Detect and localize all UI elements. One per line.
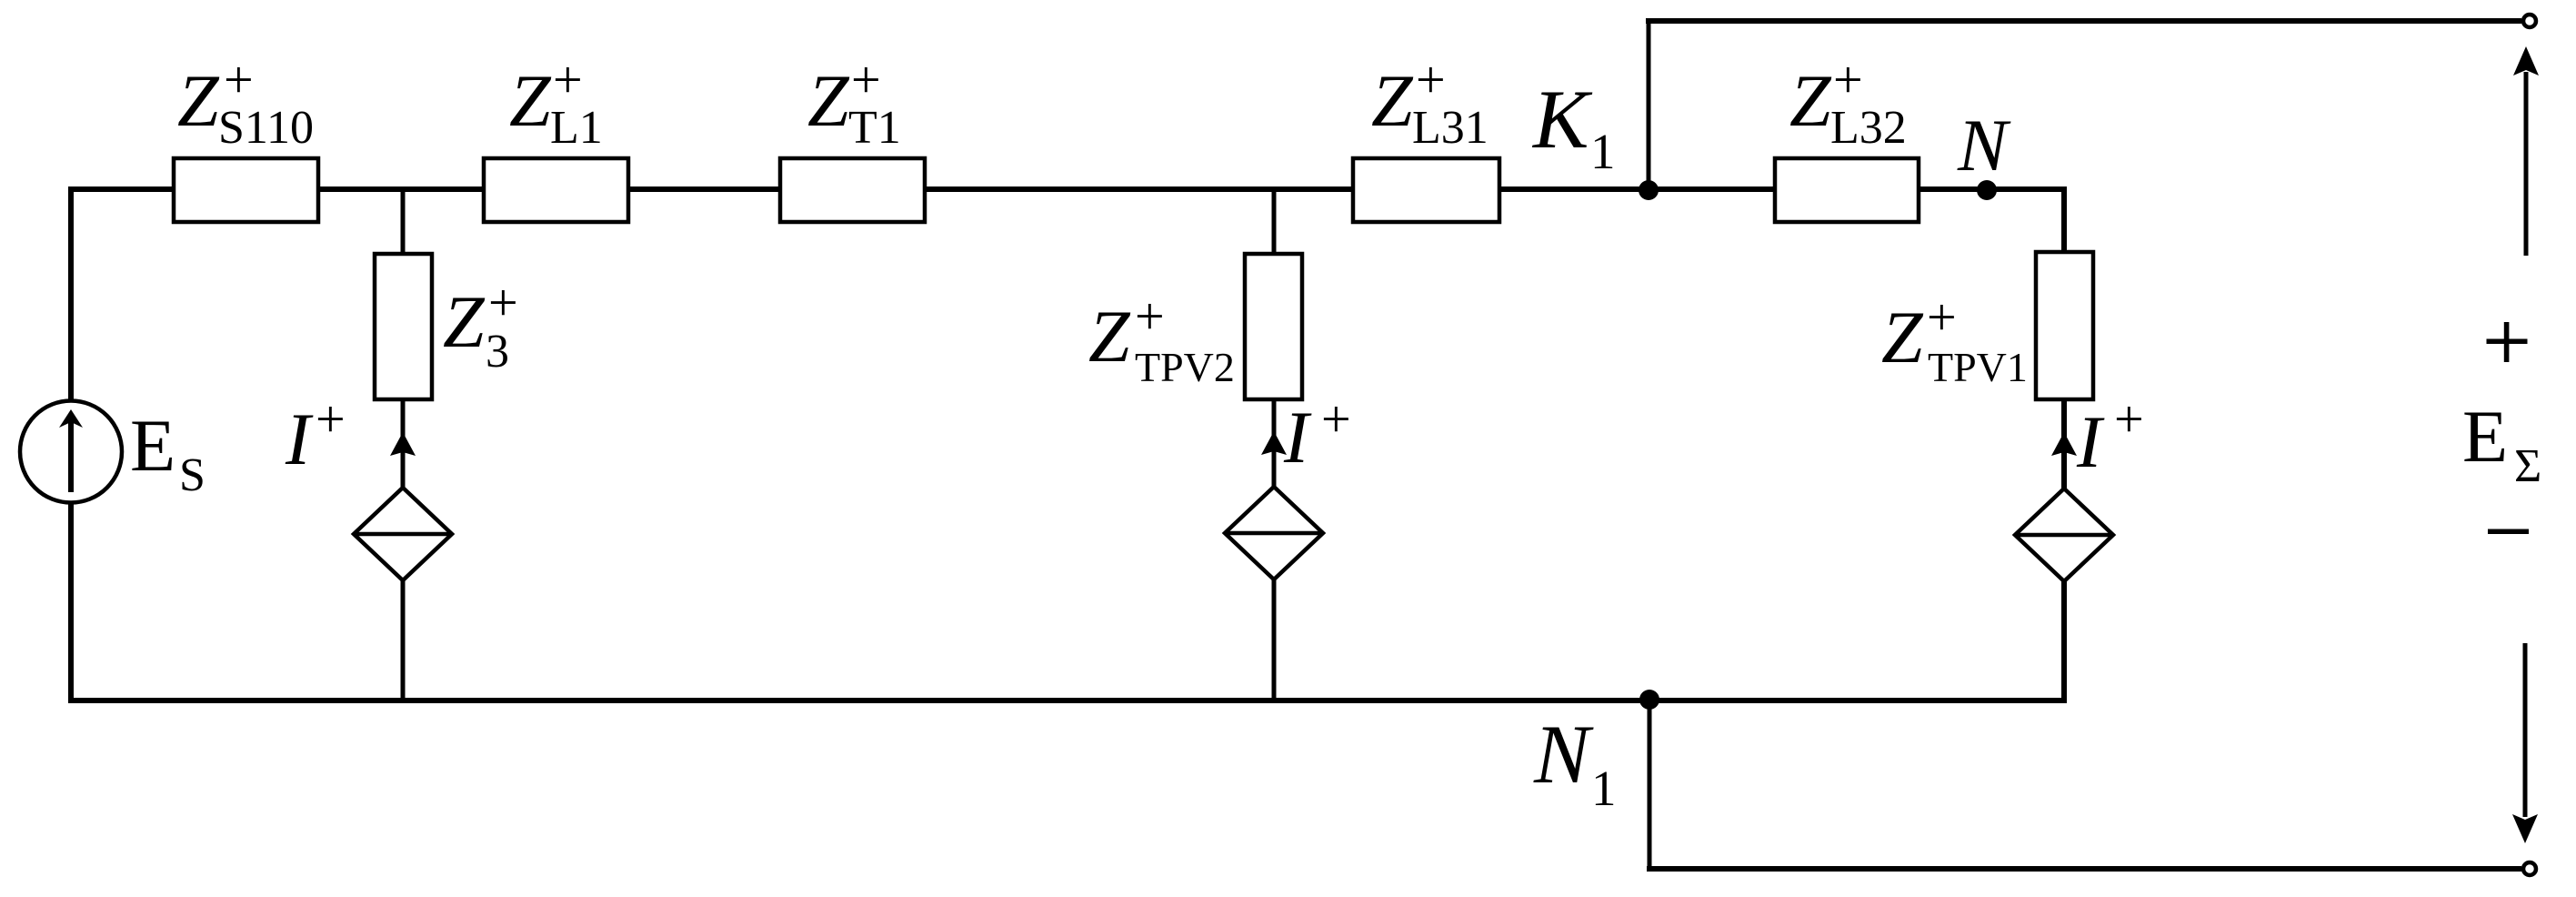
label ZL31	[1371, 50, 1488, 154]
output up arrow	[2524, 72, 2529, 256]
svg-text:+: +	[2114, 389, 2144, 448]
svg-text:L31: L31	[1412, 102, 1488, 154]
svg-text:Z: Z	[807, 59, 850, 142]
arrowhead I+ on ZTPV1 branch	[2051, 432, 2077, 456]
wire N1 dropper	[1648, 700, 1652, 869]
resistor Z3 (vertical)	[375, 254, 432, 399]
dependent source diamond D3 (ZTPV1 branch)	[2015, 489, 2113, 581]
svg-text:N: N	[1533, 708, 1594, 801]
source ES circle	[20, 401, 122, 503]
svg-text:S110: S110	[218, 102, 314, 154]
svg-text:Z: Z	[509, 59, 552, 142]
svg-text:I: I	[1283, 396, 1312, 479]
arrowhead I+ on Z3 branch	[390, 432, 416, 456]
svg-text:3: 3	[486, 326, 509, 378]
svg-text:+: +	[1416, 50, 1446, 109]
label I+ (Z3 branch)	[285, 389, 346, 480]
resistor ZL31	[1353, 158, 1499, 222]
wire shunt branch Z3 x=443	[401, 189, 406, 700]
label + (output)	[2487, 322, 2528, 362]
source ES arrow	[68, 422, 74, 492]
svg-text:L1: L1	[550, 102, 603, 154]
arrowhead I+ on ZTPV2 branch	[1261, 431, 1287, 455]
node K1 dot	[1639, 180, 1659, 200]
dependent source diamond D2 (ZTPV2 branch)	[1225, 487, 1323, 580]
svg-text:TPV1: TPV1	[1928, 344, 2028, 390]
label ZL32	[1789, 50, 1907, 154]
node N dot	[1977, 180, 1997, 200]
label N1	[1533, 708, 1617, 816]
svg-text:+: +	[1833, 50, 1863, 109]
svg-text:S: S	[179, 449, 205, 501]
svg-text:E: E	[130, 404, 175, 487]
label E sigma	[2462, 395, 2541, 492]
resistor ZL32	[1775, 158, 1919, 222]
terminal top open circle	[2523, 15, 2536, 27]
svg-text:+: +	[316, 389, 346, 448]
terminal bottom open circle	[2523, 862, 2536, 875]
output down arrow	[2523, 643, 2528, 817]
svg-text:+: +	[851, 50, 881, 109]
svg-text:+: +	[488, 273, 518, 332]
resistor ZL1	[484, 158, 628, 222]
label I+ (ZTPV1 branch)	[2076, 389, 2144, 483]
svg-text:+: +	[1927, 287, 1957, 347]
label K1	[1531, 73, 1616, 179]
wire bottom output rail	[1647, 866, 2521, 872]
svg-text:+: +	[224, 50, 254, 109]
svg-text:K: K	[1531, 73, 1593, 166]
label ZTPV1	[1881, 287, 2028, 390]
resistor ZTPV1 (vertical)	[2036, 252, 2093, 399]
node N1 dot	[1639, 690, 1659, 710]
wire top output rail	[1646, 18, 2521, 24]
svg-text:Z: Z	[1371, 59, 1414, 142]
svg-text:I: I	[2076, 400, 2105, 483]
svg-text:1: 1	[1590, 124, 1616, 179]
label ZTPV2	[1088, 287, 1235, 390]
resistor ZT1	[780, 158, 925, 222]
wire shunt branch ZTPV2 x=1401	[1272, 189, 1277, 700]
svg-text:+: +	[1135, 287, 1165, 346]
svg-text:E: E	[2462, 395, 2508, 478]
svg-text:I: I	[285, 398, 314, 480]
svg-text:+: +	[553, 50, 583, 109]
svg-text:Σ: Σ	[2514, 440, 2541, 492]
svg-text:1: 1	[1591, 761, 1617, 816]
label ZS110	[177, 50, 314, 154]
resistor ZTPV2 (vertical)	[1245, 254, 1302, 399]
dependent source diamond D1 (Z3 branch)	[354, 488, 452, 580]
svg-text:Z: Z	[1789, 59, 1832, 142]
label Z3	[443, 273, 518, 378]
resistor ZS110	[174, 158, 318, 222]
wire K1 riser	[1647, 21, 1651, 189]
label ZL1	[509, 50, 603, 154]
svg-text:+: +	[1321, 389, 1351, 448]
label - (output)	[2488, 529, 2529, 535]
svg-text:Z: Z	[443, 280, 486, 363]
label ES	[130, 404, 205, 501]
svg-text:L32: L32	[1830, 102, 1907, 154]
svg-text:T1: T1	[848, 102, 901, 154]
svg-text:Z: Z	[177, 59, 220, 142]
label ZT1	[807, 50, 901, 154]
label I+ (ZTPV2 branch)	[1283, 389, 1351, 479]
label N	[1957, 104, 2011, 186]
svg-text:Z: Z	[1881, 296, 1924, 378]
wire main loop: top rail y=208, right vertical x=2270, bottom rail y=770, left vertical x=78	[71, 189, 2064, 700]
svg-text:N: N	[1957, 104, 2011, 186]
svg-text:Z: Z	[1088, 295, 1131, 378]
svg-text:TPV2: TPV2	[1135, 344, 1235, 390]
